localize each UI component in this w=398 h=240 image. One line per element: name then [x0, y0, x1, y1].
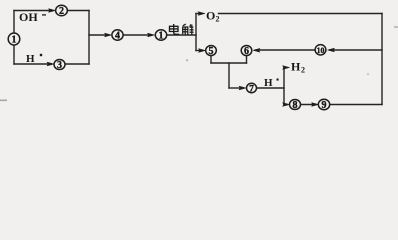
node 2 [56, 5, 68, 17]
label OH- [19, 10, 46, 24]
svg-text:H: H [264, 77, 273, 89]
wire: node 9 to right edge [330, 104, 382, 106]
wire: middle node 1 under dianjie label [167, 34, 196, 36]
node 4 [112, 30, 123, 42]
wire: node 10 line from right edge [330, 49, 382, 51]
wire: arrow stub to node 8 [284, 104, 287, 106]
node 1 (left) [8, 33, 20, 45]
wire: arrow stub to O2 [196, 13, 201, 15]
node 7 [247, 83, 257, 94]
label O2 [206, 9, 220, 24]
node 1 (middle) [155, 30, 166, 42]
svg-text:10: 10 [317, 46, 325, 55]
node 6 [241, 46, 252, 58]
label dianjie (electrolysis) hand-drawn glyphs [170, 24, 194, 35]
wire: junction to node 4 arrow line [89, 34, 108, 36]
svg-text:O: O [206, 9, 215, 23]
scan speckles [0, 26, 398, 101]
arrowhead into middle node 1 [148, 33, 155, 37]
svg-text:2: 2 [301, 66, 305, 75]
wire: node 8 to node 9 arrow line [301, 104, 316, 106]
svg-text:OH: OH [19, 10, 38, 24]
arrowhead into node 6 (pointing left) [253, 48, 260, 52]
svg-text:2: 2 [59, 6, 64, 17]
wire: node 7 to split bracket [257, 87, 285, 89]
wire: node 2 to right corner [68, 10, 90, 12]
wire: node 10 to node 6 arrow line [256, 49, 315, 51]
arrowhead into H2 [283, 66, 290, 70]
svg-text:3: 3 [57, 60, 62, 71]
svg-text:H: H [26, 53, 35, 65]
glyph dian [170, 24, 180, 34]
wire: left loop vertical from node 1 up/down [13, 11, 15, 65]
wire: node 3 to right corner [65, 63, 89, 65]
svg-text:H: H [291, 60, 301, 74]
label H+ (right of node 7) [264, 77, 279, 89]
svg-text:4: 4 [115, 31, 120, 42]
node 9 [318, 99, 329, 111]
wire: O2 to top-right corner [219, 13, 383, 15]
node 3 [54, 60, 65, 72]
label H+ (left) [26, 53, 42, 65]
arrowhead into node 3 [47, 62, 54, 66]
svg-text:1: 1 [159, 31, 164, 42]
arrowhead into node 4 [105, 33, 112, 37]
label H2 [291, 60, 305, 75]
svg-text:2: 2 [216, 15, 220, 24]
svg-text:8: 8 [293, 100, 298, 111]
arrowhead into node 9 [312, 103, 319, 107]
wire: node 4 to middle node 1 arrow line [123, 34, 151, 36]
wire: arrow stub to H2 [284, 67, 286, 69]
node 5 [206, 46, 217, 58]
wire: electrolysis branch vertical [195, 14, 197, 51]
wire: left-loop right vertical [88, 11, 90, 65]
wire: bottom-left horizontal toward node 3 [14, 63, 51, 65]
wire: arrow line to node 7 [229, 87, 243, 89]
arrowhead into node 8 [283, 103, 290, 107]
wire: top-left horizontal toward node 2 [14, 10, 52, 12]
arrowhead into node 10 (pointing left) [328, 48, 335, 52]
wire: node 5 drop [210, 56, 212, 63]
wire: merge horizontal under 5 and 6 [211, 62, 247, 64]
wire: arrow stub to node 5 [196, 50, 202, 52]
arrowhead into node 5 [199, 49, 206, 53]
svg-text:6: 6 [244, 46, 249, 57]
arrowhead into O2 [198, 12, 205, 16]
svg-text:9: 9 [322, 100, 327, 111]
wire: node 6 drop [246, 56, 248, 63]
wire: merge stub down to node 7 row [228, 63, 230, 88]
arrowhead into node 7 [239, 86, 246, 90]
svg-text:5: 5 [209, 46, 214, 57]
arrowhead into node 2 [49, 9, 56, 13]
node 8 [290, 100, 301, 112]
wire: split bracket vertical [283, 68, 285, 105]
glyph jie [182, 24, 193, 35]
node 10 [315, 45, 326, 56]
svg-text:1: 1 [12, 34, 17, 45]
wire: right-edge vertical [381, 14, 383, 105]
svg-text:7: 7 [249, 84, 254, 94]
